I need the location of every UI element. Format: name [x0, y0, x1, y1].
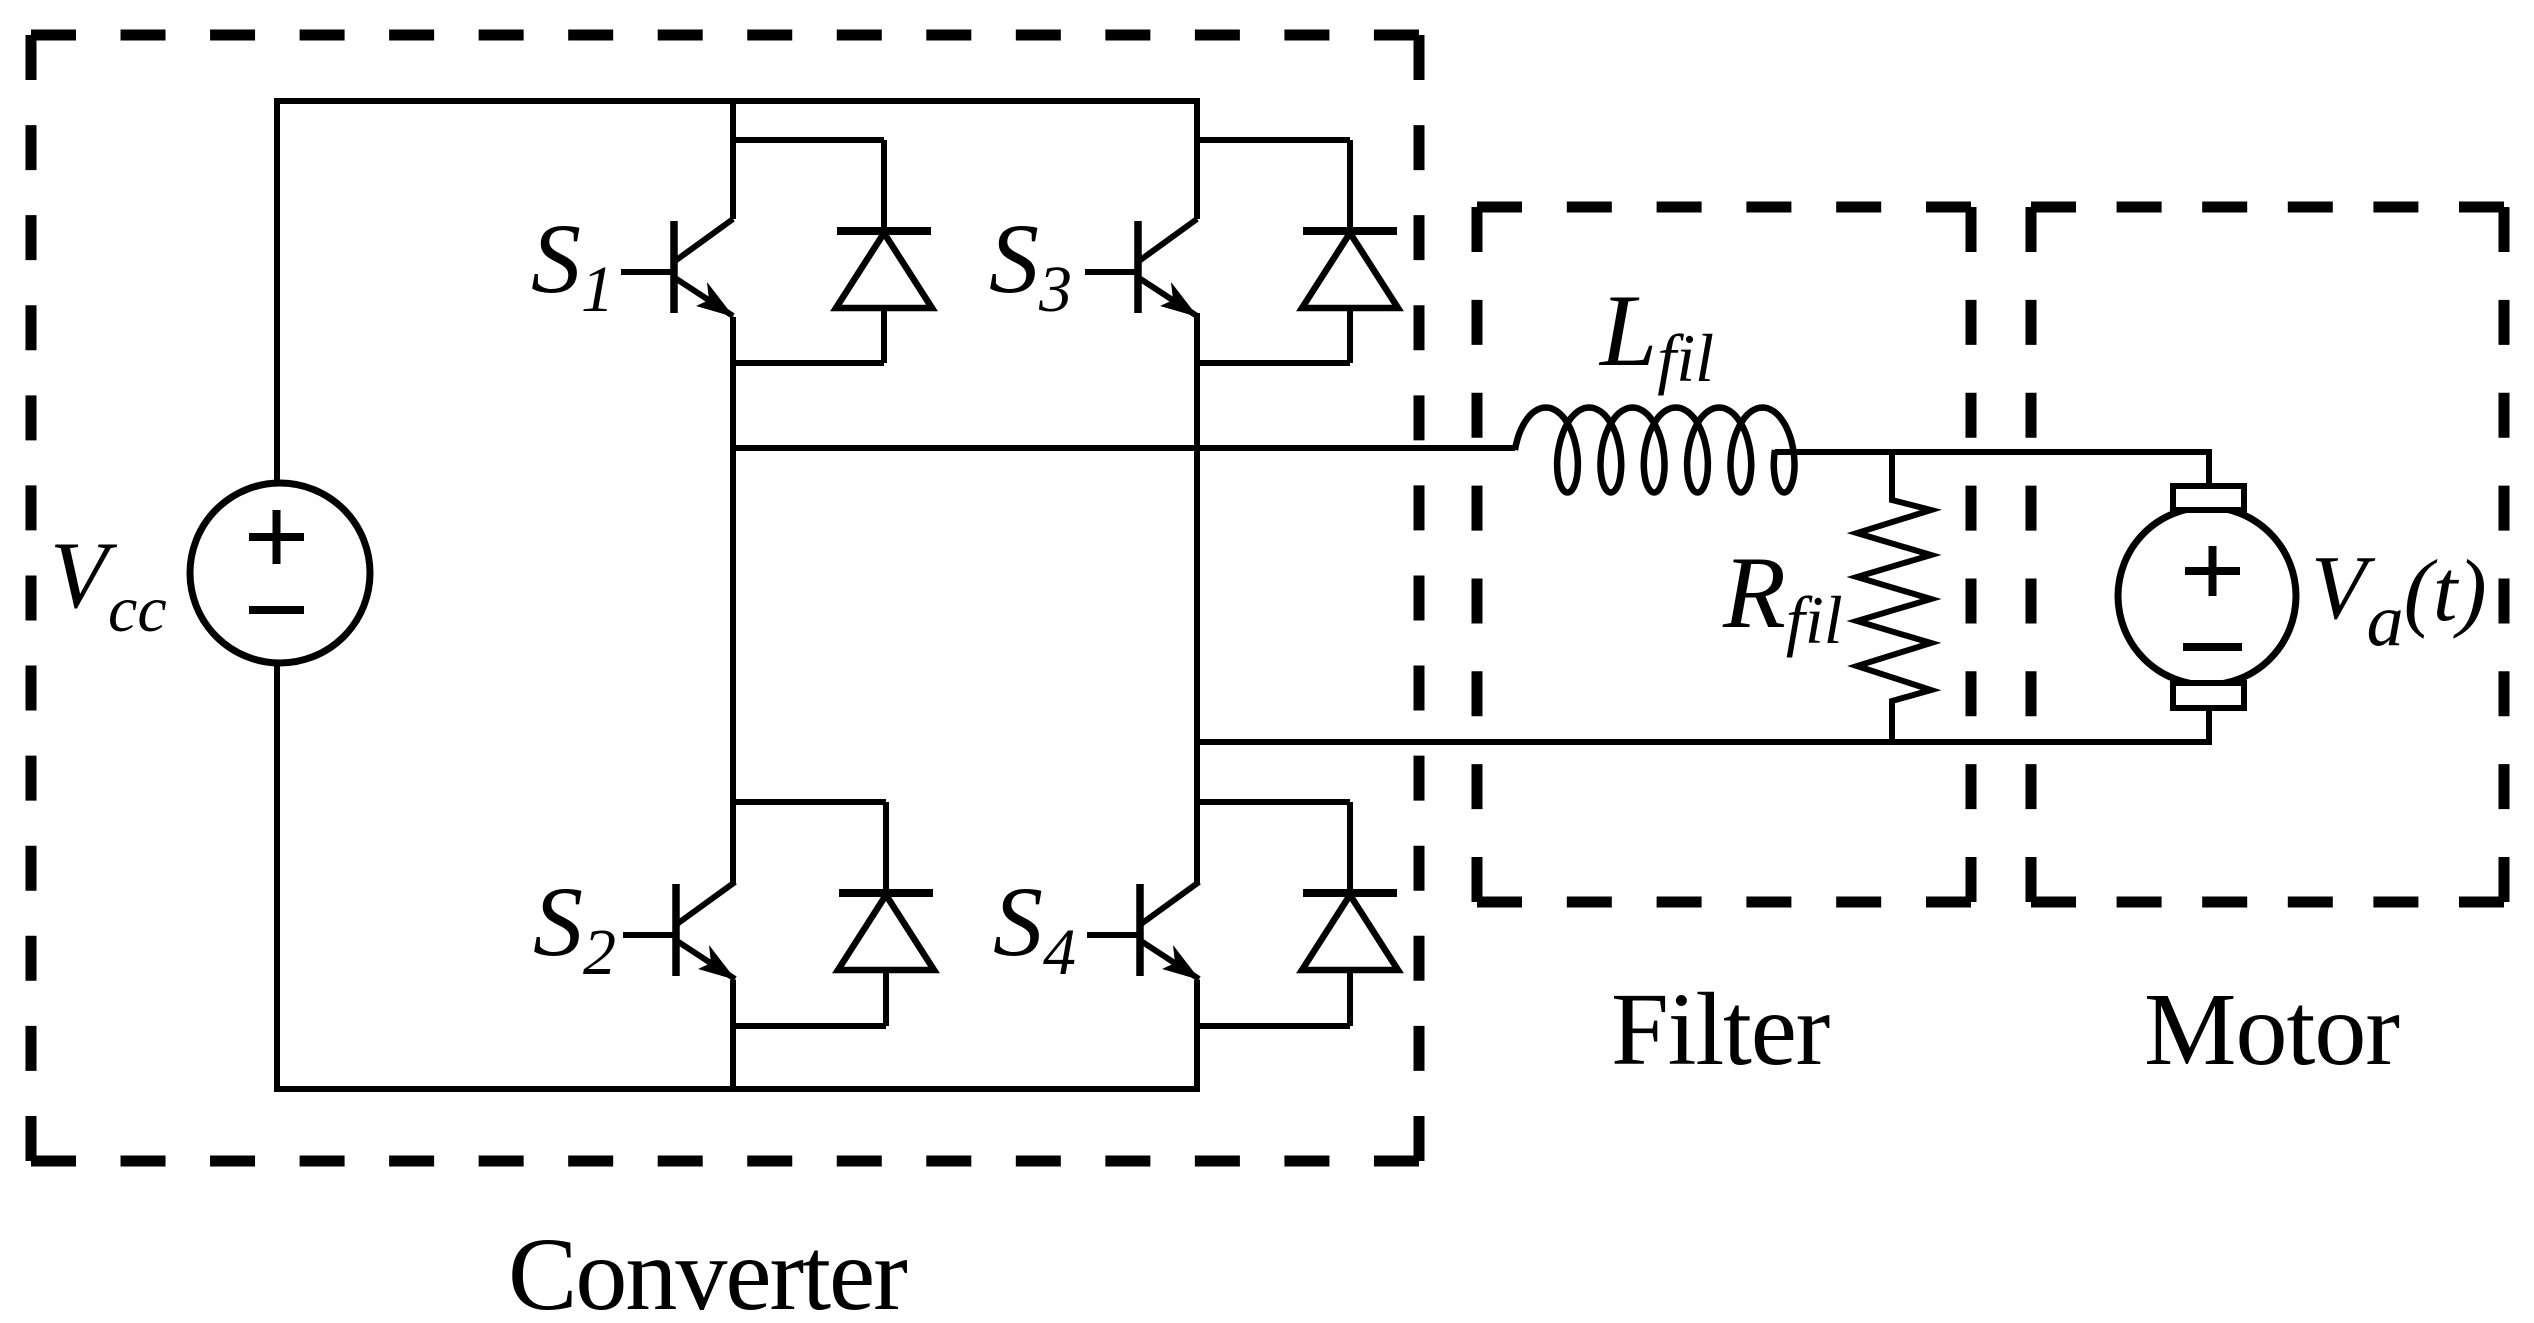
svg-text:Vcc: Vcc [50, 522, 167, 646]
svg-text:S4: S4 [993, 866, 1076, 989]
svg-text:Converter: Converter [508, 1217, 907, 1323]
svg-text:Motor: Motor [2144, 972, 2399, 1087]
svg-text:S2: S2 [533, 866, 616, 989]
svg-text:S1: S1 [531, 203, 614, 326]
svg-text:Rfil: Rfil [1722, 536, 1843, 658]
svg-text:Lfil: Lfil [1598, 274, 1714, 396]
svg-text:Filter: Filter [1611, 972, 1830, 1087]
svg-text:S3: S3 [989, 203, 1072, 326]
svg-text:Va(t): Va(t) [2311, 537, 2487, 662]
